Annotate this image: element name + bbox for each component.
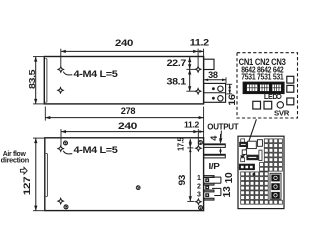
dim 11.2 (top view) <box>198 49 204 57</box>
Air flow direction label <box>1 151 29 165</box>
dim 38.1 (right inner) <box>186 69 195 91</box>
CN connector bar with 3 headers <box>243 82 284 94</box>
svg-text:240: 240 <box>115 38 133 49</box>
svg-text:SVR: SVR <box>274 111 289 118</box>
svg-text:1: 1 <box>197 175 201 182</box>
output busbar 2 <box>204 154 226 158</box>
top view: mounting holes 4-M4 (diamond marks) <box>58 67 201 95</box>
bottom view: center rivet mark <box>136 186 140 190</box>
input terminal tabs <box>204 176 214 200</box>
dim 16 label (rotated) <box>227 94 238 105</box>
grid detail: white component 1 <box>248 141 257 148</box>
I/P label <box>209 162 221 171</box>
grid detail: hatched connector 2 <box>247 155 258 160</box>
dim 93 (right side) <box>187 148 194 201</box>
pin row 7531 labels <box>241 72 284 81</box>
top view: output terminal block outline <box>204 83 226 102</box>
top view: 4-M4 L=5 label with leader <box>63 69 118 79</box>
input pin numbers <box>197 175 201 198</box>
svg-text:93: 93 <box>177 175 188 186</box>
leader line from detail box to terminal area <box>240 119 256 161</box>
LED label and indicator <box>264 94 281 101</box>
svg-text:OUTPUT: OUTPUT <box>207 121 239 131</box>
dim 11.2 (top view) label <box>190 38 209 48</box>
dim 4 label (rotated) <box>209 136 219 141</box>
dim 10 label (rotated) <box>224 172 235 184</box>
svg-text:13: 13 <box>222 186 233 198</box>
top view: terminal block screws <box>212 86 223 101</box>
right column square 1 <box>287 76 294 83</box>
svg-text:38.1: 38.1 <box>167 77 187 87</box>
dim 17.5 (right side) <box>187 139 193 148</box>
svg-text:22.7: 22.7 <box>167 58 187 68</box>
dim 93 label (rotated) <box>177 175 188 186</box>
bottom view: 4-M4 L=5 label with leader <box>63 145 118 155</box>
svg-text:17.5: 17.5 <box>175 137 185 151</box>
svg-text:38: 38 <box>208 70 218 80</box>
output busbar 1 <box>204 144 226 148</box>
svg-text:4: 4 <box>209 136 219 141</box>
svg-text:4-M4 L=5: 4-M4 L=5 <box>74 145 118 155</box>
svg-text:83.5: 83.5 <box>27 69 37 89</box>
dim 38 (terminal block width) <box>204 77 226 83</box>
dim 22.7 label <box>167 58 187 68</box>
dim 240 (top view) label <box>115 38 133 49</box>
dim 38 label <box>208 70 218 80</box>
dim 83.5 label (rotated) <box>27 69 37 89</box>
vent hole grid <box>241 139 283 204</box>
dim 16 (terminal pitch) <box>226 84 232 94</box>
pin pitch brackets <box>212 177 221 195</box>
svg-text:direction: direction <box>1 158 29 165</box>
bottom view: PSU case outline <box>45 138 204 211</box>
svg-text:127: 127 <box>22 177 33 196</box>
right column square 3 <box>287 98 294 105</box>
SVR potentiometer circle <box>277 102 283 108</box>
svg-text:240: 240 <box>118 121 137 132</box>
top view: left cover strip line <box>45 59 47 102</box>
svg-text:7531 7531 531: 7531 7531 531 <box>241 72 284 81</box>
svg-text:I/P: I/P <box>209 162 221 171</box>
bottom view: corner screw marks <box>64 141 203 210</box>
dim 240 (bottom view) <box>61 129 198 146</box>
front panel detail box outline <box>238 136 284 208</box>
dim 22.7 (right inner) <box>186 57 195 69</box>
grid detail: white component 2 <box>257 140 262 147</box>
dim 11.2 (bottom view) <box>198 130 203 133</box>
dim 240 (bottom) label <box>118 121 137 132</box>
svg-text:11.2: 11.2 <box>184 120 200 130</box>
OUTPUT leader arrow <box>219 131 222 144</box>
grid detail: small dot <box>253 173 255 175</box>
right column square 2 <box>287 85 294 92</box>
bottom detail square 2 <box>264 101 272 109</box>
bottom view: mounting hole diamonds <box>58 145 201 204</box>
detail box (dashed): rear connector panel <box>237 53 298 118</box>
svg-text:278: 278 <box>121 106 136 117</box>
grid detail: CN connector bar (leader target) <box>239 164 254 170</box>
pin row 8642 labels <box>241 66 284 75</box>
svg-text:LED: LED <box>264 94 278 101</box>
grid detail: white vertical bar <box>259 150 262 160</box>
svg-text:11.2: 11.2 <box>190 38 209 48</box>
svg-text:10: 10 <box>224 172 235 184</box>
dim 278 label <box>121 106 136 117</box>
air flow hollow arrow <box>20 167 27 174</box>
top view: rear connector housing (protrudes right) <box>204 59 214 69</box>
dim 13 label (rotated) <box>222 186 233 198</box>
top view: PSU case outline (side elevation) <box>44 57 203 104</box>
dim 17.5 label (rotated) <box>175 137 185 151</box>
bottom view: left vent strip <box>46 154 48 197</box>
dim 38.1 label <box>167 77 187 87</box>
dim 11.2 (bottom) label <box>184 120 200 130</box>
dim 278 (overall length) <box>45 107 203 138</box>
CN1 CN2 CN3 labels <box>239 57 286 67</box>
svg-text:4-M4 L=5: 4-M4 L=5 <box>74 69 118 79</box>
SVR label <box>274 111 289 118</box>
grid detail: small white rect row2 <box>242 150 246 155</box>
OUTPUT label <box>207 121 239 131</box>
dim 127 (left side) <box>33 138 44 211</box>
dim 127 label (rotated) <box>22 177 33 196</box>
svg-text:3: 3 <box>197 191 201 198</box>
dim 240 (top view) dimension line <box>61 49 198 67</box>
svg-text:2: 2 <box>197 184 201 191</box>
dim 4 (busbar thickness) <box>219 134 222 154</box>
input terminal crimps <box>206 179 209 197</box>
grid detail: output terminal strip <box>270 173 281 199</box>
grid detail: hatched connector 1 <box>240 142 247 146</box>
bottom detail square 1 <box>253 101 261 109</box>
dim 83.5 (left side) <box>33 57 44 104</box>
